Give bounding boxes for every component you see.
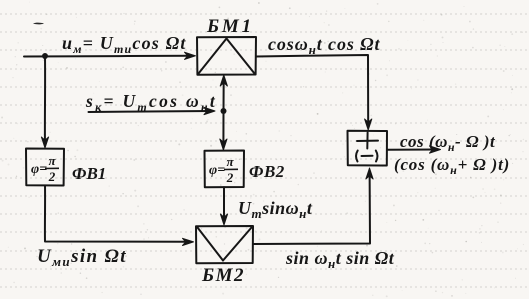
svg-text:π: π — [226, 154, 234, 169]
svg-text:ФВ2: ФВ2 — [249, 162, 285, 181]
svg-text:2: 2 — [48, 169, 56, 184]
svg-text:Uмиsin Ωt: Uмиsin Ωt — [37, 246, 127, 269]
svg-text:φ=: φ= — [31, 162, 47, 177]
svg-text:cosωнt cos Ωt: cosωнt cos Ωt — [268, 34, 380, 57]
svg-text:БМ2: БМ2 — [201, 265, 245, 286]
svg-text:БМ1: БМ1 — [206, 16, 254, 37]
svg-text:ФВ1: ФВ1 — [72, 164, 106, 183]
svg-text:sin ωнt sin Ωt: sin ωнt sin Ωt — [285, 248, 395, 271]
svg-text:sк= Umcos ωнt: sк= Umcos ωнt — [85, 91, 217, 114]
svg-text:2: 2 — [226, 170, 234, 185]
svg-text:φ=: φ= — [209, 163, 225, 178]
svg-text:π: π — [48, 153, 56, 168]
